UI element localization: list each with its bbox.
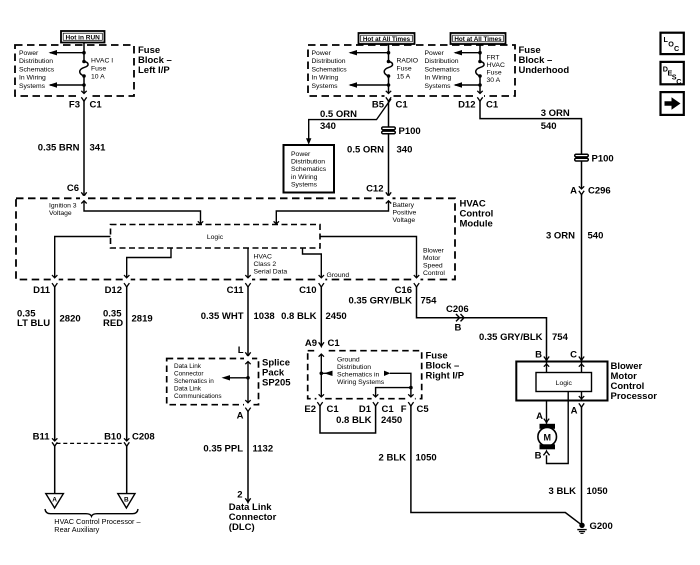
svg-text:C: C: [674, 44, 679, 53]
connector C12: [366, 184, 391, 197]
svg-text:C1: C1: [90, 100, 103, 111]
svg-text:0.5 ORN: 0.5 ORN: [320, 109, 357, 120]
label Blower Motor Control Processor: [611, 361, 658, 402]
svg-text:Data Link: Data Link: [174, 386, 202, 393]
svg-text:Power: Power: [291, 151, 311, 158]
svg-text:754: 754: [421, 296, 438, 307]
label box "Hot in RUN": [61, 31, 105, 43]
svg-text:Schematics: Schematics: [425, 66, 461, 73]
svg-text:Distribution: Distribution: [19, 58, 53, 65]
wire D11: 0.35 LT BLU 2820: [54, 287, 56, 440]
text Ignition 3 Voltage: [49, 203, 77, 218]
svg-text:C206: C206: [446, 304, 469, 315]
svg-text:A: A: [536, 411, 543, 422]
wire radio fuse: [388, 44, 390, 62]
label Fuse Block - Underhood: [519, 45, 570, 76]
wire Logic to C11: [245, 248, 250, 278]
svg-text:LT BLU: LT BLU: [17, 318, 50, 329]
connector A (right, under box): [571, 403, 585, 416]
svg-text:340: 340: [397, 145, 413, 156]
connector A9 C1: [305, 338, 341, 349]
svg-text:Systems: Systems: [312, 83, 339, 90]
wire B10 to triangle B: [126, 447, 128, 494]
fuse value text: [487, 55, 505, 85]
arrow to schematics (top): [49, 50, 86, 55]
svg-text:Logic: Logic: [207, 234, 224, 241]
triangle terminal A: [46, 494, 64, 508]
svg-text:SP205: SP205: [262, 377, 291, 388]
wire 3 ORN 540 down to blower box C: [581, 195, 583, 361]
svg-text:2819: 2819: [132, 314, 153, 325]
svg-text:M: M: [543, 432, 551, 442]
svg-text:B10: B10: [104, 432, 121, 443]
svg-text:Hot at All Times: Hot at All Times: [363, 36, 411, 43]
arrow to schematics (bottom): [349, 82, 391, 87]
wire B5 down to C12: [388, 102, 390, 197]
svg-text:0.35 WHT: 0.35 WHT: [201, 311, 244, 322]
svg-text:C6: C6: [67, 183, 79, 194]
wire label 0.8 BLK 2450: [336, 415, 402, 426]
svg-text:Wiring Systems: Wiring Systems: [337, 379, 385, 386]
ground G200: [577, 521, 612, 533]
svg-text:Schematics in: Schematics in: [174, 378, 214, 385]
connector B5 C1: [372, 97, 409, 110]
svg-text:D12: D12: [105, 285, 122, 296]
svg-text:C296: C296: [588, 186, 611, 197]
wire Logic to C10: [303, 248, 324, 278]
svg-text:Voltage: Voltage: [49, 210, 72, 217]
svg-text:C1: C1: [327, 404, 340, 415]
wire A9 down through box to E2: [319, 354, 324, 397]
text Blower Motor Speed Control: [423, 248, 445, 278]
connector A (below splice): [237, 408, 251, 422]
wire C11: 0.35 WHT 1038: [247, 287, 249, 356]
svg-text:540: 540: [588, 231, 604, 242]
connector C206 (in-line, on horizontal wire): [446, 304, 469, 334]
fuse block Underhood dashed box: [308, 45, 515, 96]
svg-text:Motor: Motor: [423, 255, 441, 262]
button arrow: [661, 92, 684, 115]
connector C11: [227, 283, 251, 296]
svg-text:Distribution: Distribution: [425, 58, 459, 65]
svg-text:In Wiring: In Wiring: [19, 75, 46, 82]
svg-text:340: 340: [320, 121, 336, 132]
svg-text:B11: B11: [33, 432, 51, 443]
label Fuse Block - Right I/P: [426, 351, 465, 382]
svg-text:0.8 BLK: 0.8 BLK: [281, 311, 317, 322]
connector E2 C1: [304, 402, 339, 415]
inline connector P100 (right): [575, 154, 614, 165]
text Power Distribution Schematics (frt hvac side): [425, 50, 461, 90]
svg-text:Battery: Battery: [393, 202, 415, 209]
connector A (left, under box): [536, 401, 549, 424]
svg-text:2 BLK: 2 BLK: [379, 453, 407, 464]
button DESC: [661, 62, 684, 86]
label Data Link Connector (DLC): [229, 502, 277, 533]
svg-text:Fuse: Fuse: [397, 66, 412, 73]
svg-text:3 ORN: 3 ORN: [546, 231, 575, 242]
svg-text:Data Link: Data Link: [174, 363, 202, 370]
svg-text:F3: F3: [69, 100, 80, 111]
exit chevron at box bottom: [81, 91, 86, 94]
label box "Hot at All Times" (2): [451, 33, 506, 44]
svg-text:Schematics: Schematics: [291, 166, 327, 173]
svg-text:Underhood: Underhood: [519, 65, 570, 76]
wire from Hot in RUN down through fuse: [83, 43, 85, 62]
svg-text:FRT: FRT: [487, 55, 500, 62]
svg-text:C10: C10: [299, 285, 316, 296]
logic box inside: [536, 373, 592, 392]
svg-text:P100: P100: [399, 126, 421, 137]
svg-text:0.35 BRN: 0.35 BRN: [38, 143, 80, 154]
U wire E2 to D1: [320, 406, 376, 433]
svg-text:Hot at All Times: Hot at All Times: [454, 36, 502, 43]
svg-text:D12: D12: [458, 100, 475, 111]
svg-text:Voltage: Voltage: [393, 217, 416, 224]
exit chevron: [386, 91, 391, 94]
svg-text:Control: Control: [423, 270, 445, 277]
curly brace: [45, 509, 138, 516]
wire Logic to D12: [124, 248, 171, 278]
dashed connector line B11-B10: [57, 442, 126, 444]
svg-text:Systems: Systems: [19, 83, 46, 90]
wire B11 to triangle A: [54, 447, 56, 494]
data link dashed box: [167, 359, 259, 405]
arrow to schematics (top): [349, 50, 391, 55]
svg-text:C: C: [676, 77, 681, 86]
svg-text:Module: Module: [460, 219, 493, 230]
svg-text:C5: C5: [417, 404, 430, 415]
svg-text:0.5 ORN: 0.5 ORN: [347, 145, 384, 156]
label box "Hot at All Times" (1): [359, 33, 415, 44]
fuse value text: [397, 58, 419, 81]
svg-text:D1: D1: [359, 404, 372, 415]
connector D1 C1: [359, 402, 395, 415]
wire C6 entry to Logic: [81, 201, 203, 225]
wire Logic to D11: [52, 237, 111, 278]
svg-text:C1: C1: [486, 100, 499, 111]
connector F C5: [401, 402, 430, 415]
wire 0.35 BRN 341: [83, 102, 85, 197]
svg-text:Schematics: Schematics: [312, 66, 348, 73]
svg-text:Power: Power: [425, 50, 445, 57]
svg-text:341: 341: [90, 143, 107, 154]
svg-text:1050: 1050: [416, 453, 437, 464]
svg-text:754: 754: [552, 332, 569, 343]
splice junction arrow: [222, 375, 250, 380]
fuse FRT HVAC 30A: [476, 60, 484, 78]
text Data Link Connector Schematics: [174, 363, 222, 400]
svg-text:B: B: [455, 323, 462, 334]
blower processor box: [516, 362, 607, 401]
connector B10 C208: [104, 432, 155, 447]
svg-text:C12: C12: [366, 184, 383, 195]
svg-text:Fuse: Fuse: [91, 66, 106, 73]
svg-text:Processor: Processor: [611, 391, 658, 402]
svg-text:Blower: Blower: [423, 248, 445, 255]
svg-text:Systems: Systems: [291, 181, 318, 188]
svg-text:A9: A9: [305, 338, 317, 349]
text Battery Positive Voltage: [393, 202, 417, 224]
svg-text:D11: D11: [33, 285, 51, 296]
wire through splice box: [245, 362, 250, 403]
svg-text:540: 540: [541, 121, 557, 132]
svg-text:A: A: [571, 406, 578, 417]
wire frt hvac fuse: [479, 44, 481, 62]
label HVAC Control Module: [460, 199, 494, 230]
svg-text:0.35 PPL: 0.35 PPL: [203, 444, 243, 455]
internal wire logic to A (right): [579, 392, 584, 401]
connector D11: [33, 283, 57, 296]
svg-text:RADIO: RADIO: [397, 58, 419, 65]
internal wire C to logic: [579, 362, 584, 373]
exit chevron: [477, 91, 482, 94]
svg-text:C: C: [570, 350, 577, 361]
svg-text:Distribution: Distribution: [312, 58, 346, 65]
svg-text:Hot in RUN: Hot in RUN: [66, 35, 101, 42]
svg-text:Systems: Systems: [425, 83, 452, 90]
wire C16: 0.35 GRY/BLK 754 to C206: [417, 287, 547, 360]
wire C10: 0.8 BLK 2450: [320, 287, 322, 346]
svg-text:3 BLK: 3 BLK: [549, 486, 577, 497]
svg-text:Speed: Speed: [423, 263, 443, 270]
svg-text:F: F: [401, 404, 407, 415]
svg-text:0.8 BLK: 0.8 BLK: [336, 415, 372, 426]
svg-text:L: L: [238, 345, 244, 356]
triangle terminal B: [118, 494, 135, 508]
svg-text:HVAC: HVAC: [487, 62, 505, 69]
text Power Distribution Schematics (radio side): [312, 50, 348, 90]
button LOC: [661, 33, 684, 54]
connector D12 C1: [458, 97, 499, 110]
solid box Power Distribution Schematics in Wiring Systems: [284, 145, 335, 193]
svg-text:Serial Data: Serial Data: [254, 269, 288, 276]
svg-text:RED: RED: [103, 318, 123, 329]
wire F down: 2 BLK 1050: [411, 406, 581, 524]
svg-text:2450: 2450: [381, 415, 402, 426]
svg-text:Fuse: Fuse: [487, 70, 502, 77]
label HVAC Control Processor - Rear Auxiliary: [54, 517, 141, 534]
svg-text:In Wiring: In Wiring: [312, 75, 339, 82]
label Fuse Block - Left I/P: [138, 45, 172, 76]
svg-text:Distribution: Distribution: [337, 364, 371, 371]
svg-text:Left I/P: Left I/P: [138, 65, 170, 76]
svg-text:C16: C16: [395, 285, 412, 296]
svg-text:Class 2: Class 2: [254, 261, 277, 268]
fuse RADIO 15A: [384, 60, 392, 78]
text Power Distribution Schematics: [19, 50, 55, 90]
svg-text:Power: Power: [19, 50, 39, 57]
svg-text:In Wiring: In Wiring: [425, 75, 452, 82]
connector C: [570, 350, 584, 361]
wire C12 entry to Logic: [274, 201, 392, 225]
svg-text:Ground: Ground: [337, 357, 360, 364]
svg-text:3 ORN: 3 ORN: [541, 108, 570, 119]
svg-text:B: B: [124, 497, 129, 504]
text Ground Distribution Schematics: [337, 357, 385, 387]
wire motor B loop to logic: [547, 392, 569, 464]
blower motor M: [538, 424, 557, 450]
svg-text:Connector: Connector: [174, 371, 204, 378]
svg-text:B5: B5: [372, 100, 385, 111]
svg-text:2: 2: [237, 490, 242, 501]
wire D12 right and down: [480, 102, 582, 155]
svg-text:Communications: Communications: [174, 393, 222, 400]
connector C6: [67, 183, 87, 197]
svg-text:C1: C1: [382, 404, 395, 415]
svg-text:Ground: Ground: [327, 272, 350, 279]
svg-text:HVAC: HVAC: [254, 254, 272, 261]
svg-text:HVAC I: HVAC I: [91, 58, 113, 65]
svg-text:C11: C11: [227, 285, 245, 296]
inline connector P100: [382, 126, 421, 137]
connector L: [238, 345, 251, 357]
connector A C296: [570, 186, 611, 197]
svg-text:Distribution: Distribution: [291, 159, 325, 166]
svg-text:C1: C1: [328, 338, 341, 349]
fuse HVAC I 10A: [80, 60, 88, 78]
svg-text:10 A: 10 A: [91, 74, 105, 81]
svg-text:Schematics: Schematics: [19, 66, 55, 73]
connector F3 C1: [69, 97, 102, 110]
fuse block Left I/P dashed box: [15, 45, 134, 96]
wire label 0.35 GRY/BLK 754 (second): [479, 332, 569, 343]
svg-text:G200: G200: [590, 521, 613, 532]
svg-text:Logic: Logic: [556, 380, 573, 387]
svg-text:A: A: [237, 411, 244, 422]
svg-text:Ignition 3: Ignition 3: [49, 203, 77, 210]
svg-text:in Wiring: in Wiring: [291, 174, 318, 181]
connector D12: [105, 283, 130, 296]
arrow to schematics (bottom): [454, 82, 482, 87]
svg-text:B: B: [535, 350, 542, 361]
connector B (below motor): [535, 451, 550, 462]
connector 2 (DLC): [237, 490, 250, 503]
connector B: [535, 350, 549, 361]
wire Logic to C16: [320, 237, 419, 278]
svg-text:A: A: [52, 497, 57, 504]
wire 0.35 PPL 1132: [247, 412, 249, 503]
svg-text:E2: E2: [304, 404, 316, 415]
svg-text:P100: P100: [592, 154, 614, 165]
svg-text:C1: C1: [396, 100, 409, 111]
wire A down to G200: 3 BLK 1050: [581, 408, 583, 525]
arrow to schematics (bottom): [49, 82, 86, 87]
connector C16: [395, 283, 420, 296]
svg-text:(DLC): (DLC): [229, 522, 255, 533]
fuse value text: [91, 58, 113, 81]
svg-text:0.35 GRY/BLK: 0.35 GRY/BLK: [348, 296, 412, 307]
Logic dashed box: [111, 225, 321, 249]
label Splice Pack SP205: [262, 357, 291, 388]
svg-text:30 A: 30 A: [487, 77, 501, 84]
svg-text:Schematics in: Schematics in: [337, 372, 380, 379]
svg-text:Positive: Positive: [393, 210, 417, 217]
svg-text:1050: 1050: [587, 486, 608, 497]
connector C10: [299, 283, 324, 296]
svg-text:15 A: 15 A: [397, 74, 411, 81]
svg-text:0.35 GRY/BLK: 0.35 GRY/BLK: [479, 332, 543, 343]
svg-text:C208: C208: [132, 432, 155, 443]
svg-text:Power: Power: [312, 50, 332, 57]
junction dot with left arrowhead: [320, 371, 333, 376]
svg-text:1132: 1132: [253, 444, 274, 455]
svg-text:2450: 2450: [326, 311, 347, 322]
svg-text:1038: 1038: [254, 311, 275, 322]
wire label 0.5 ORN 340: [347, 145, 412, 156]
svg-text:2820: 2820: [60, 314, 81, 325]
connector B11: [33, 432, 58, 447]
wire diagonal branch 0.5 ORN 340: [309, 99, 391, 139]
svg-text:A: A: [570, 186, 577, 197]
arrow to schematics (top): [454, 50, 482, 55]
svg-text:B: B: [535, 451, 542, 462]
wire D12: 0.35 RED 2819: [126, 287, 128, 440]
internal wire B to logic: [544, 362, 549, 373]
text HVAC Class 2 Serial Data: [254, 254, 288, 276]
branch with right arrowhead to D1 and F: [373, 371, 414, 397]
svg-text:Rear Auxiliary: Rear Auxiliary: [54, 525, 99, 534]
svg-text:Right I/P: Right I/P: [426, 371, 465, 382]
right I/P dashed box: [308, 351, 422, 399]
